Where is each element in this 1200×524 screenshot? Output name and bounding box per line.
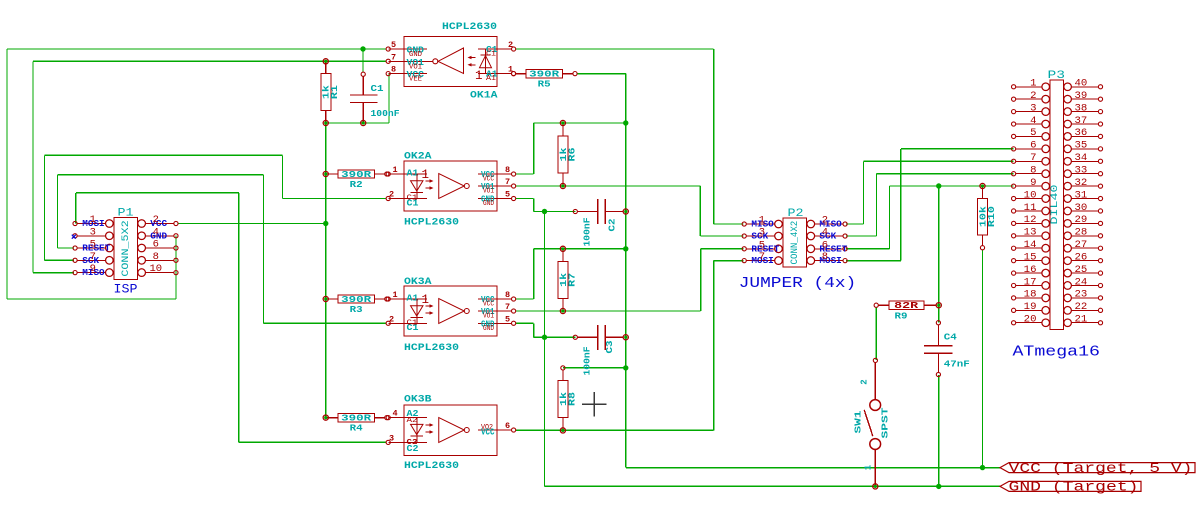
svg-text:7: 7 [505,302,510,312]
svg-text:1: 1 [393,165,398,175]
svg-text:3: 3 [1030,103,1036,114]
svg-text:12: 12 [1024,215,1037,226]
svg-text:OK1A: OK1A [470,91,498,102]
svg-text:C3: C3 [604,340,615,353]
svg-text:25: 25 [1075,265,1088,276]
svg-text:OK3A: OK3A [404,277,432,288]
svg-text:1: 1 [422,293,430,307]
svg-text:32: 32 [1075,178,1088,189]
svg-text:R8: R8 [567,392,577,406]
svg-text:3: 3 [759,227,765,239]
svg-text:P1: P1 [118,208,134,220]
svg-text:31: 31 [1075,190,1088,201]
svg-text:VEE: VEE [409,76,422,84]
svg-text:RESET: RESET [82,243,110,254]
svg-text:OK2A: OK2A [404,152,432,163]
svg-text:9: 9 [90,263,96,275]
svg-text:6: 6 [822,239,828,251]
svg-text:HCPL2630: HCPL2630 [442,22,497,33]
svg-text:R6: R6 [567,148,577,162]
svg-text:C2: C2 [607,218,618,231]
svg-text:8: 8 [1030,165,1036,176]
svg-text:39: 39 [1075,91,1088,102]
svg-text:40: 40 [1075,79,1088,90]
svg-text:390R: 390R [341,170,372,180]
svg-text:GND: GND [483,325,494,333]
svg-text:9: 9 [1030,178,1036,189]
svg-text:4: 4 [1030,116,1036,127]
svg-text:GND: GND [483,200,494,208]
svg-text:16: 16 [1024,265,1037,276]
svg-text:4: 4 [393,409,398,419]
svg-text:35: 35 [1075,141,1088,152]
svg-text:36: 36 [1075,128,1088,139]
svg-text:4: 4 [153,226,159,238]
svg-text:CONN_4X2: CONN_4X2 [790,221,801,265]
svg-text:R5: R5 [538,80,551,90]
svg-text:2: 2 [1030,91,1036,102]
svg-text:23: 23 [1075,290,1088,301]
svg-text:7: 7 [1030,153,1036,164]
svg-text:38: 38 [1075,103,1088,114]
svg-text:5: 5 [505,190,510,200]
svg-text:1: 1 [864,464,874,470]
svg-text:20: 20 [1024,315,1037,326]
svg-text:1: 1 [393,290,398,300]
svg-text:R4: R4 [350,424,364,434]
svg-text:A1: A1 [486,75,496,83]
svg-text:33: 33 [1075,165,1088,176]
svg-text:4: 4 [822,227,828,239]
svg-text:8: 8 [822,251,828,263]
svg-text:R10: R10 [987,206,997,227]
svg-text:A1: A1 [407,169,420,179]
svg-text:390R: 390R [341,295,372,305]
svg-text:6: 6 [505,421,510,431]
svg-text:RESET: RESET [751,243,779,254]
svg-text:15: 15 [1024,252,1037,263]
svg-text:OK3B: OK3B [404,395,432,406]
svg-text:7: 7 [90,251,96,263]
svg-text:2: 2 [822,215,828,227]
svg-text:8: 8 [391,65,396,75]
svg-text:2: 2 [508,40,513,50]
svg-text:JUMPER (4x): JUMPER (4x) [739,275,857,292]
svg-text:HCPL2630: HCPL2630 [404,343,459,354]
svg-text:82R: 82R [894,301,919,311]
svg-text:13: 13 [1024,228,1037,239]
svg-text:CONN_5X2: CONN_5X2 [121,220,132,276]
svg-text:6: 6 [1030,141,1036,152]
svg-text:SPST: SPST [880,407,891,438]
svg-text:VCC: VCC [481,428,495,438]
svg-text:5: 5 [391,40,396,50]
svg-text:HCPL2630: HCPL2630 [404,218,459,229]
svg-text:A1: A1 [407,294,420,304]
svg-text:3: 3 [90,226,96,238]
svg-text:C1: C1 [371,83,384,94]
svg-text:27: 27 [1075,240,1088,251]
svg-text:37: 37 [1075,116,1088,127]
svg-text:2: 2 [153,214,159,226]
svg-text:5: 5 [505,314,510,324]
svg-text:5: 5 [759,239,765,251]
svg-text:R3: R3 [350,305,363,315]
svg-text:1: 1 [759,215,765,227]
svg-text:ATmega16: ATmega16 [1013,344,1101,361]
svg-text:1: 1 [422,168,430,182]
svg-text:C1: C1 [486,51,496,59]
svg-text:2: 2 [860,379,870,384]
svg-text:22: 22 [1075,302,1088,313]
svg-text:21: 21 [1075,315,1088,326]
svg-text:7: 7 [505,177,510,187]
svg-text:R7: R7 [567,273,577,287]
svg-text:R2: R2 [350,180,363,190]
svg-text:19: 19 [1024,302,1037,313]
svg-text:8: 8 [505,290,510,300]
svg-text:34: 34 [1075,153,1088,164]
svg-text:1: 1 [508,65,513,75]
svg-text:28: 28 [1075,228,1088,239]
svg-text:10: 10 [1024,190,1037,201]
svg-text:10: 10 [149,263,162,275]
svg-text:390R: 390R [341,413,372,423]
svg-text:390R: 390R [529,69,560,79]
svg-text:100nF: 100nF [582,346,593,375]
svg-text:SW1: SW1 [852,410,863,433]
svg-text:3: 3 [389,433,394,443]
svg-text:100nF: 100nF [371,108,400,119]
svg-text:47nF: 47nF [944,359,970,370]
svg-text:2: 2 [389,190,394,200]
svg-text:5: 5 [90,239,96,251]
svg-text:14: 14 [1024,240,1037,251]
svg-text:17: 17 [1024,277,1037,288]
svg-text:18: 18 [1024,290,1037,301]
svg-text:2: 2 [389,314,394,324]
svg-text:8: 8 [505,165,510,175]
svg-text:24: 24 [1075,277,1088,288]
svg-text:DIL40: DIL40 [1050,185,1061,225]
svg-text:30: 30 [1075,203,1088,214]
svg-text:100nF: 100nF [582,217,593,246]
svg-text:R1: R1 [330,84,340,99]
svg-text:8: 8 [153,251,159,263]
svg-text:1: 1 [90,214,96,226]
svg-text:P3: P3 [1048,70,1066,82]
svg-text:11: 11 [1024,203,1037,214]
svg-text:1: 1 [475,69,483,83]
svg-text:6: 6 [153,239,159,251]
svg-text:7: 7 [391,52,396,62]
svg-text:1: 1 [1030,79,1036,90]
svg-text:P2: P2 [788,208,804,220]
svg-text:ISP: ISP [114,282,138,297]
svg-text:5: 5 [1030,128,1036,139]
svg-text:HCPL2630: HCPL2630 [404,461,459,472]
svg-text:GND (Target): GND (Target) [1009,480,1139,496]
svg-text:VCC (Target, 5 V): VCC (Target, 5 V) [1009,461,1193,477]
svg-text:R9: R9 [895,311,908,321]
svg-text:7: 7 [759,251,765,263]
svg-text:C4: C4 [944,332,957,343]
svg-text:26: 26 [1075,252,1088,263]
svg-text:29: 29 [1075,215,1088,226]
